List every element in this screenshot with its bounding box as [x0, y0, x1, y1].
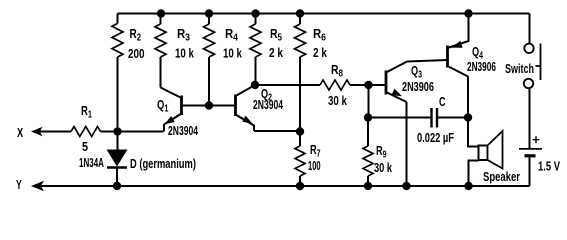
node X junction	[113, 127, 121, 135]
svg-text:2 k: 2 k	[269, 46, 283, 61]
wire R8 to Q3 base	[350, 84, 386, 86]
svg-text:10 k: 10 k	[175, 47, 195, 61]
svg-text:Y: Y	[16, 178, 22, 192]
resistor R7	[299, 132, 301, 187]
resistor R1	[71, 127, 101, 137]
wire Q3 collector to Q4 base	[407, 60, 448, 62]
terminal Y	[31, 181, 44, 192]
wire R8 node down to cap node	[367, 85, 370, 146]
svg-text:2N3906: 2N3906	[402, 81, 434, 95]
wire bottom Y rail	[33, 185, 530, 187]
svg-text:2N3904: 2N3904	[253, 98, 284, 112]
wire speaker bottom lead	[469, 161, 479, 187]
svg-text:100: 100	[308, 159, 321, 174]
resistor R2	[117, 14, 119, 132]
wire speaker top lead	[468, 118, 479, 147]
wire rail to switch	[529, 14, 531, 44]
capacitor C 0.022uF	[432, 108, 438, 128]
wire switch to battery	[529, 88, 531, 148]
node R9 rail junction	[364, 182, 372, 190]
svg-text:200: 200	[128, 48, 145, 61]
wire battery to rail	[529, 158, 531, 187]
svg-text:30 k: 30 k	[374, 162, 393, 176]
resistor R9	[367, 176, 369, 186]
svg-text:30 k: 30 k	[328, 95, 348, 109]
wire Q2 emitter to R7 node	[254, 130, 300, 132]
node R5 rail junction	[251, 9, 259, 17]
node R8 Q3 base junction	[364, 81, 372, 89]
svg-text:X: X	[17, 127, 24, 141]
resistor R6	[299, 14, 301, 132]
battery 1.5V	[519, 149, 542, 156]
node Q3 emitter rail junction	[402, 182, 410, 190]
svg-text:C: C	[439, 96, 446, 110]
svg-text:+: +	[532, 132, 540, 147]
speaker	[479, 131, 503, 169]
transistor Q2 2N3904	[236, 85, 256, 131]
resistor R5	[255, 14, 257, 86]
wire X node to Q1 emitter	[101, 131, 164, 133]
svg-text:D (germanium): D (germanium)	[130, 158, 196, 172]
node cap tap junction	[364, 113, 372, 121]
wire Q3 emitter to rail	[406, 102, 408, 186]
node base junction R4	[205, 101, 213, 109]
node Q4 emitter rail junction	[464, 9, 472, 17]
node R6 rail junction	[296, 9, 304, 17]
wire cap node to C	[368, 117, 431, 119]
node R3 rail junction	[157, 9, 165, 17]
svg-text:1.5 V: 1.5 V	[538, 160, 560, 174]
resistor R8	[320, 80, 350, 90]
svg-text:1N34A: 1N34A	[79, 156, 104, 170]
svg-text:Switch: Switch	[505, 63, 534, 77]
diode D 1N34A	[107, 132, 128, 187]
node R7 rail junction	[296, 182, 304, 190]
svg-text:Speaker: Speaker	[483, 171, 520, 185]
svg-text:0.022 µF: 0.022 µF	[417, 132, 454, 146]
node R4 rail junction	[205, 9, 213, 17]
transistor Q3 2N3906	[386, 62, 407, 103]
node Q2 collector R5 junction	[251, 81, 259, 89]
terminal X	[31, 127, 71, 136]
svg-text:10 k: 10 k	[223, 47, 243, 61]
transistor Q1 2N3904	[161, 88, 182, 132]
svg-text:2 k: 2 k	[313, 46, 327, 61]
node diode bottom rail junction	[113, 182, 121, 190]
wire R5 node to R8	[255, 84, 320, 86]
switch	[524, 44, 541, 89]
resistor R3	[160, 14, 162, 88]
node R6 R7 emitter junction	[296, 127, 304, 135]
node Q4 collector speaker junction	[464, 113, 472, 121]
node speaker rail junction	[464, 182, 472, 190]
wire C to speaker node	[438, 117, 468, 119]
wire top supply rail	[118, 13, 530, 15]
svg-text:2N3904: 2N3904	[168, 124, 199, 138]
transistor Q4 2N3906	[448, 14, 469, 118]
resistor R4	[208, 14, 210, 106]
svg-text:2N3906: 2N3906	[467, 60, 496, 74]
svg-text:5: 5	[82, 139, 88, 154]
wire Q1 base to Q2 base	[182, 105, 236, 107]
